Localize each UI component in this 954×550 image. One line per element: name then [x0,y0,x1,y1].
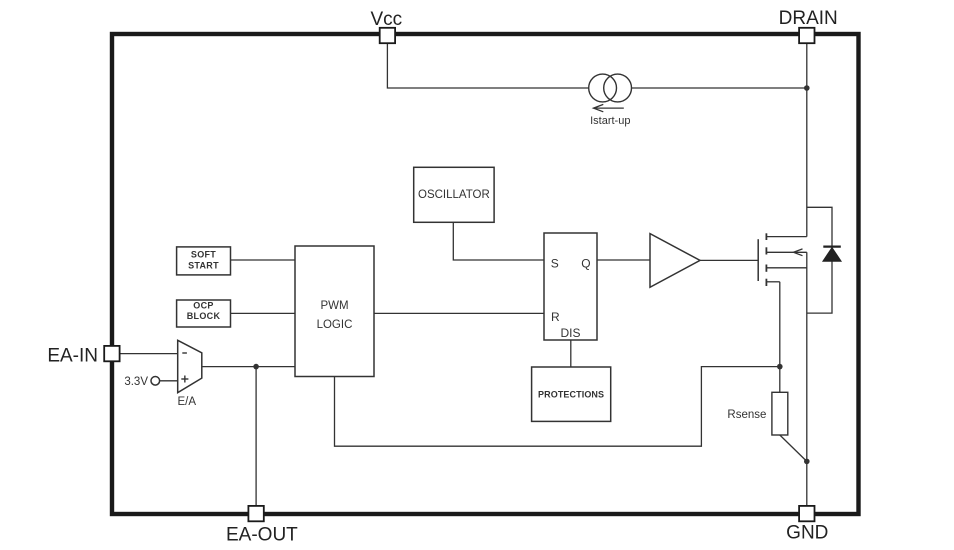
svg-text:START: START [188,260,219,270]
svg-text:EA-OUT: EA-OUT [226,524,298,545]
arrow Istart-up direction [594,104,624,111]
wire body diode branch [807,207,832,313]
svg-text:DRAIN: DRAIN [779,8,838,29]
wire DIS to protections [570,340,572,367]
svg-text:S: S [551,256,559,270]
svg-text:3.3V: 3.3V [124,376,148,388]
wire latch Q output to driver [597,259,650,261]
svg-text:Vcc: Vcc [370,9,402,30]
buffer U4 gate driver [650,234,700,288]
node 3.3V reference terminal [124,376,159,388]
pin Vcc [370,9,402,43]
block PWM LOGIC U2 [295,246,374,377]
svg-text:LOGIC: LOGIC [317,319,353,331]
op-amp U5 error amplifier E/A [178,340,202,408]
svg-text:GND: GND [786,523,828,544]
svg-text:DIS: DIS [561,326,581,340]
svg-text:PWM: PWM [320,300,348,312]
svg-text:OSCILLATOR: OSCILLATOR [418,189,490,201]
block SOFT START [177,247,231,275]
wire soft start to PWM logic [231,259,296,261]
svg-text:OCP: OCP [193,301,213,311]
svg-text:Rsense: Rsense [727,409,766,421]
svg-text:EA-IN: EA-IN [47,345,98,366]
diode D1 body diode [823,247,841,262]
wire PWM logic feedback loop to sense junction [335,367,780,447]
svg-text:SOFT: SOFT [191,249,216,259]
wire MOSFET source leg down to Rsense [779,282,781,393]
wire OCP block to PWM logic [231,312,296,314]
svg-text:PROTECTIONS: PROTECTIONS [538,389,604,399]
wire oscillator to latch S input [453,222,544,260]
resistor Rsense [727,392,787,435]
current source I1 Istart-up [589,74,632,102]
IC outer boundary [112,34,859,514]
node GND junction [804,459,810,465]
node drain junction [804,85,810,91]
wire E/A output to PWM logic [202,366,295,368]
svg-text:Q: Q [581,256,590,270]
wire EA-IN pin to inverting input [120,353,178,355]
node E/A output junction [253,364,259,370]
block PROTECTIONS [532,367,611,421]
pin GND [786,506,828,544]
transistor Q1 power MOSFET [758,233,807,286]
svg-text:BLOCK: BLOCK [187,311,221,321]
svg-text:Istart-up: Istart-up [590,115,630,127]
block OSCILLATOR [414,167,494,222]
wire E/A output down to EA-OUT pin [255,367,257,506]
wire driver to MOSFET gate [700,259,758,261]
pin DRAIN [779,8,838,43]
pin EA-IN [47,345,119,366]
wire current source to drain net [632,87,807,89]
wire Vcc pin to current source [387,43,588,88]
svg-text:E/A: E/A [178,396,197,408]
node sense junction [777,364,783,370]
wire MOSFET source-body down to GND pin [806,252,808,506]
wire DRAIN pin down to MOSFET drain [806,43,808,236]
wire 3.3V to non-inverting input [160,380,178,382]
block OCP BLOCK [177,300,231,327]
wire Rsense bottom diagonal to GND net [780,435,807,461]
pin EA-OUT [226,506,298,545]
wire PWM logic to latch R input [374,312,544,314]
latch U3 SR flip-flop [544,233,597,340]
svg-text:R: R [551,310,560,324]
